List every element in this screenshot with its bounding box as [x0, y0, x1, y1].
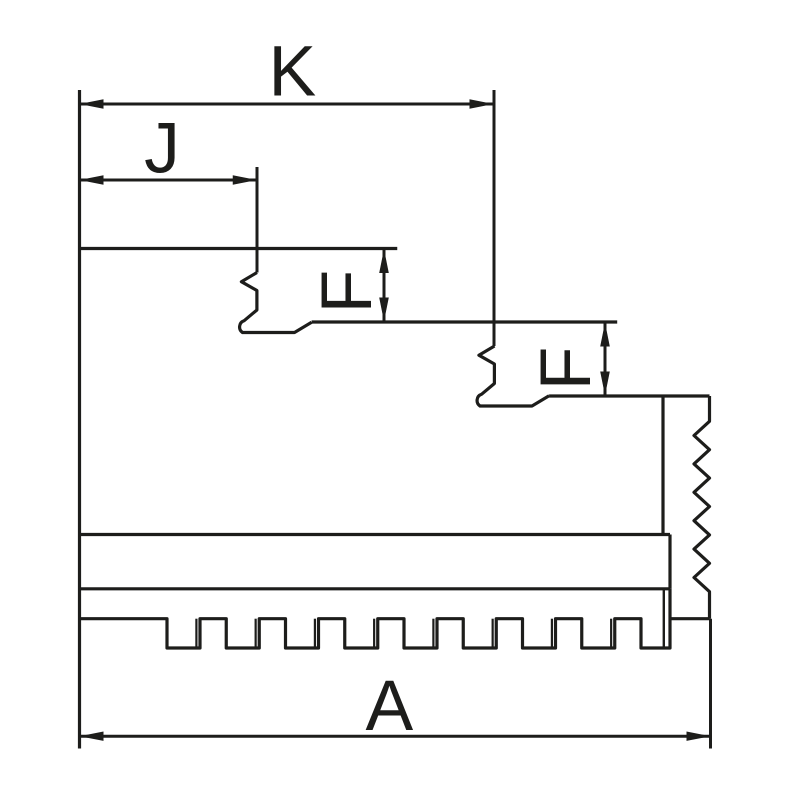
right serrated edge (sawtooth): [694, 396, 710, 619]
dimension A line: [80, 735, 711, 738]
svg-text:F: F: [307, 270, 387, 314]
step2 serrated face break + relief hook: [477, 346, 549, 406]
extension line K right: [493, 90, 496, 346]
arrow K right: [470, 99, 494, 108]
bottom mounting teeth profile: [80, 589, 671, 648]
arrow A left: [80, 732, 104, 741]
svg-text:K: K: [268, 32, 316, 112]
arrow A right: [687, 732, 711, 741]
svg-text:J: J: [144, 109, 180, 189]
step1 top surface: [80, 247, 398, 250]
dimension J line: [80, 179, 257, 182]
serrated block bottom: [670, 617, 710, 620]
arrow F1 down: [379, 298, 389, 322]
dimension K line: [80, 103, 494, 106]
arrow J left: [80, 175, 104, 184]
extension line J right: [256, 167, 259, 273]
step1 serrated face break + relief hook: [240, 273, 312, 333]
step3 top surface: [549, 394, 709, 397]
arrow K left: [80, 99, 104, 108]
body right face: [661, 396, 664, 535]
dimension F2 shaft: [604, 323, 607, 396]
extension line A right: [709, 619, 712, 749]
guide bar top: [80, 533, 671, 536]
svg-text:F: F: [526, 347, 606, 391]
guide bar bottom: [80, 587, 671, 590]
teeth inner flank lines: [196, 619, 611, 648]
guide bar right edge: [668, 535, 671, 589]
dimension F1 shaft: [383, 249, 386, 322]
arrow F2 down: [600, 372, 610, 396]
arrow J right: [233, 175, 257, 184]
arrow F1 up: [379, 249, 389, 273]
left edge / extension line: [78, 90, 81, 749]
arrow F2 up: [600, 323, 610, 347]
svg-text:A: A: [366, 666, 414, 746]
step2 top surface: [312, 320, 618, 323]
last tooth inner flank: [663, 589, 665, 648]
